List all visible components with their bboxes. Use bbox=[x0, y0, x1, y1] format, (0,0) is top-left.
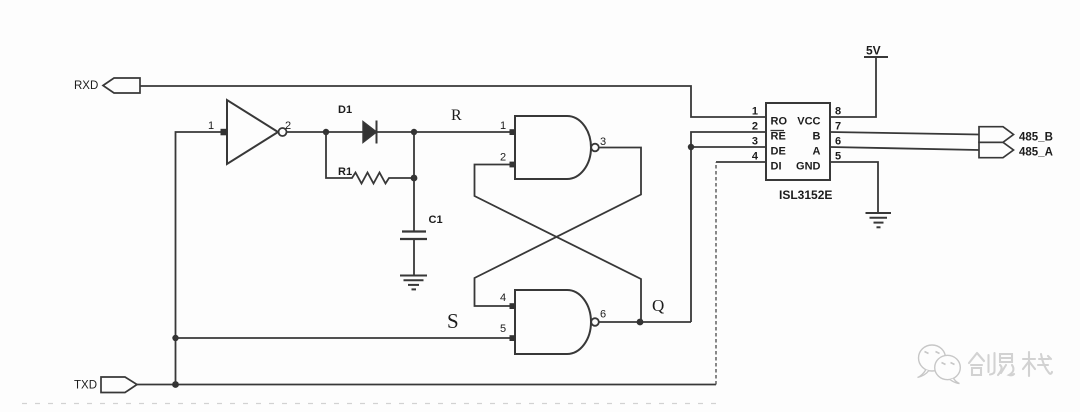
svg-text:8: 8 bbox=[835, 106, 841, 118]
svg-text:2: 2 bbox=[285, 120, 291, 132]
wire TXD horizontal bbox=[137, 384, 716, 386]
svg-text:3: 3 bbox=[752, 136, 758, 148]
wire TXD riser to inverter input bbox=[176, 132, 228, 385]
svg-text:TXD: TXD bbox=[74, 380, 97, 392]
wire pin6 A to 485_A bbox=[830, 147, 979, 150]
junction R1/C1 node bbox=[411, 175, 418, 182]
junction Q node bbox=[637, 319, 644, 326]
svg-text:7: 7 bbox=[835, 121, 841, 133]
junction TXD riser bbox=[172, 381, 179, 388]
wire pin5 GND to ground bbox=[830, 162, 878, 213]
svg-text:VCC: VCC bbox=[797, 116, 820, 128]
wire DI stub to IC pin4 bbox=[716, 161, 766, 163]
svg-text:Q: Q bbox=[652, 296, 664, 315]
NAND gate G1 bbox=[500, 116, 606, 179]
svg-text:A: A bbox=[813, 146, 821, 158]
connector TXD bbox=[101, 377, 137, 393]
svg-text:4: 4 bbox=[752, 151, 759, 163]
svg-text:6: 6 bbox=[835, 136, 841, 148]
watermark text 创易栈 bbox=[969, 352, 1052, 376]
inverter U1 bbox=[208, 100, 291, 164]
connector RXD bbox=[103, 78, 140, 93]
svg-text:RE: RE bbox=[771, 131, 786, 143]
svg-text:RO: RO bbox=[771, 116, 788, 128]
svg-text:485_B: 485_B bbox=[1019, 132, 1053, 144]
svg-text:5V: 5V bbox=[866, 44, 881, 58]
svg-text:C1: C1 bbox=[429, 214, 443, 226]
watermark logo bubbles bbox=[918, 345, 961, 384]
wire capacitor to ground bbox=[413, 239, 415, 276]
ground below C1 bbox=[400, 276, 427, 290]
svg-text:DE: DE bbox=[771, 146, 786, 158]
svg-text:DI: DI bbox=[771, 161, 782, 173]
wire DI riser (dashed) bbox=[715, 162, 717, 385]
junction DE branch bbox=[688, 144, 694, 150]
svg-text:GND: GND bbox=[796, 161, 821, 173]
svg-text:4: 4 bbox=[500, 292, 506, 304]
svg-text:5: 5 bbox=[835, 151, 841, 163]
svg-text:2: 2 bbox=[500, 152, 506, 164]
junction inverter output node bbox=[323, 129, 329, 135]
power 5V bbox=[864, 44, 888, 58]
wire diode cathode to node bbox=[377, 131, 415, 133]
wire gate1 output feedback to gate2 pin4 bbox=[475, 148, 642, 307]
wire RXD to IC pin1 RO bbox=[140, 86, 766, 117]
svg-text:B: B bbox=[813, 131, 821, 143]
wire inverter output bbox=[287, 131, 364, 133]
wire Q feedback to gate1 pin2 bbox=[475, 165, 642, 323]
junction S branch bbox=[172, 335, 178, 341]
svg-text:6: 6 bbox=[600, 309, 606, 321]
wire node down to capacitor bbox=[413, 132, 415, 232]
connector 485_B bbox=[979, 127, 1014, 143]
svg-text:1: 1 bbox=[500, 120, 506, 132]
wire pin7 B to 485_B bbox=[830, 132, 979, 135]
wire DE stub bbox=[691, 146, 766, 148]
ground below IC bbox=[866, 213, 892, 227]
svg-text:3: 3 bbox=[600, 136, 606, 148]
svg-text:R: R bbox=[451, 107, 462, 124]
IC U2 ISL3152E bbox=[752, 103, 841, 180]
svg-text:RXD: RXD bbox=[74, 80, 98, 92]
svg-text:485_A: 485_A bbox=[1019, 147, 1053, 159]
junction node R bbox=[411, 129, 417, 135]
scan artifact dashed line bbox=[22, 403, 720, 405]
svg-text:D1: D1 bbox=[338, 104, 352, 116]
svg-text:R1: R1 bbox=[338, 166, 352, 178]
wire S line to gate2 pin5 bbox=[176, 337, 515, 339]
svg-text:1: 1 bbox=[208, 120, 214, 132]
wire node R to gate1 pin1 bbox=[414, 131, 514, 133]
diode D1 bbox=[338, 104, 377, 144]
connector 485_A bbox=[979, 142, 1014, 157]
svg-text:S: S bbox=[447, 309, 459, 333]
svg-text:ISL3152E: ISL3152E bbox=[779, 188, 832, 202]
svg-text:5: 5 bbox=[500, 323, 506, 335]
svg-text:2: 2 bbox=[752, 121, 758, 133]
wire Q to RE/DE control bbox=[691, 132, 766, 322]
svg-text:1: 1 bbox=[752, 106, 758, 118]
resistor R1 bbox=[326, 132, 414, 184]
wire pin8 VCC to 5V bbox=[830, 57, 876, 117]
capacitor C1 bbox=[400, 214, 443, 239]
wire Q output bbox=[599, 321, 691, 323]
NAND gate G2 bbox=[500, 290, 606, 354]
